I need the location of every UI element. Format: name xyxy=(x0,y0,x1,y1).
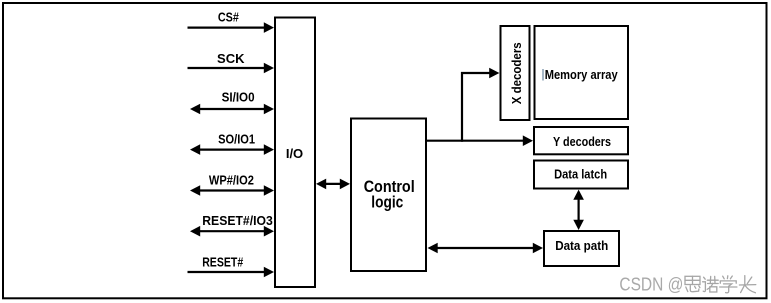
block Y decoders xyxy=(534,127,628,154)
watermark char XUE xyxy=(720,276,737,293)
watermark char NUO xyxy=(703,276,719,292)
svg-text:I/O: I/O xyxy=(286,146,303,161)
svg-text:CSDN @: CSDN @ xyxy=(619,274,683,294)
watermark char SI xyxy=(685,276,700,291)
block Data latch xyxy=(534,161,628,189)
svg-text:logic: logic xyxy=(371,194,403,212)
wire CS# xyxy=(188,22,275,33)
wire WP#/IO2 xyxy=(190,185,274,196)
svg-text:X decoders: X decoders xyxy=(509,42,524,104)
wire Control logic to Data path (bidirectional) xyxy=(428,243,544,254)
wire SO/IO1 xyxy=(190,144,274,155)
block Control logic xyxy=(351,119,426,272)
svg-text:Data path: Data path xyxy=(555,239,608,253)
text caret before Memory xyxy=(542,69,544,81)
block X decoders xyxy=(501,26,530,120)
svg-text:SCK: SCK xyxy=(217,52,245,66)
svg-text:Y decoders: Y decoders xyxy=(553,135,611,149)
wire RESET# xyxy=(188,267,275,278)
block Data path xyxy=(544,231,619,266)
svg-text:Memory array: Memory array xyxy=(545,68,618,82)
svg-text:WP#/IO2: WP#/IO2 xyxy=(209,173,254,187)
wire I/O to Control logic (bidirectional) xyxy=(316,179,350,190)
block I/O xyxy=(275,18,315,288)
wire SI/IO0 xyxy=(190,104,274,115)
block Memory array xyxy=(535,26,629,119)
svg-text:Data latch: Data latch xyxy=(554,168,607,182)
wire vertical branch up to X decoders xyxy=(461,68,499,142)
wire Control logic to Y decoders xyxy=(427,135,533,146)
watermark char ZHANG xyxy=(739,276,755,293)
svg-text:CS#: CS# xyxy=(218,11,239,25)
wire Data latch to Data path (bidirectional vertical) xyxy=(573,190,584,230)
svg-text:RESET#/IO3: RESET#/IO3 xyxy=(202,214,273,228)
svg-text:SI/IO0: SI/IO0 xyxy=(222,91,255,105)
svg-text:SO/IO1: SO/IO1 xyxy=(218,133,255,147)
wire SCK xyxy=(188,63,275,74)
wire RESET#/IO3 xyxy=(190,226,274,237)
svg-text:RESET#: RESET# xyxy=(202,255,243,269)
